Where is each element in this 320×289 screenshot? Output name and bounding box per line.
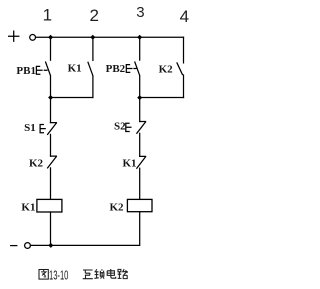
svg-text:13-10: 13-10 [49,267,68,282]
svg-text:K2: K2 [159,63,174,75]
svg-text:PB2: PB2 [106,63,126,75]
svg-text:3: 3 [136,4,144,21]
svg-text:K1: K1 [21,201,35,213]
svg-text:K2: K2 [110,202,125,214]
svg-text:K1: K1 [68,63,82,75]
svg-text:K2: K2 [29,157,44,169]
svg-text:4: 4 [180,7,189,26]
svg-text:S2: S2 [114,121,126,133]
svg-text:S1: S1 [24,122,36,134]
svg-text:PB1: PB1 [16,65,36,77]
svg-text:2: 2 [90,6,99,25]
svg-text:K1: K1 [123,158,137,170]
svg-text:1: 1 [43,5,52,24]
